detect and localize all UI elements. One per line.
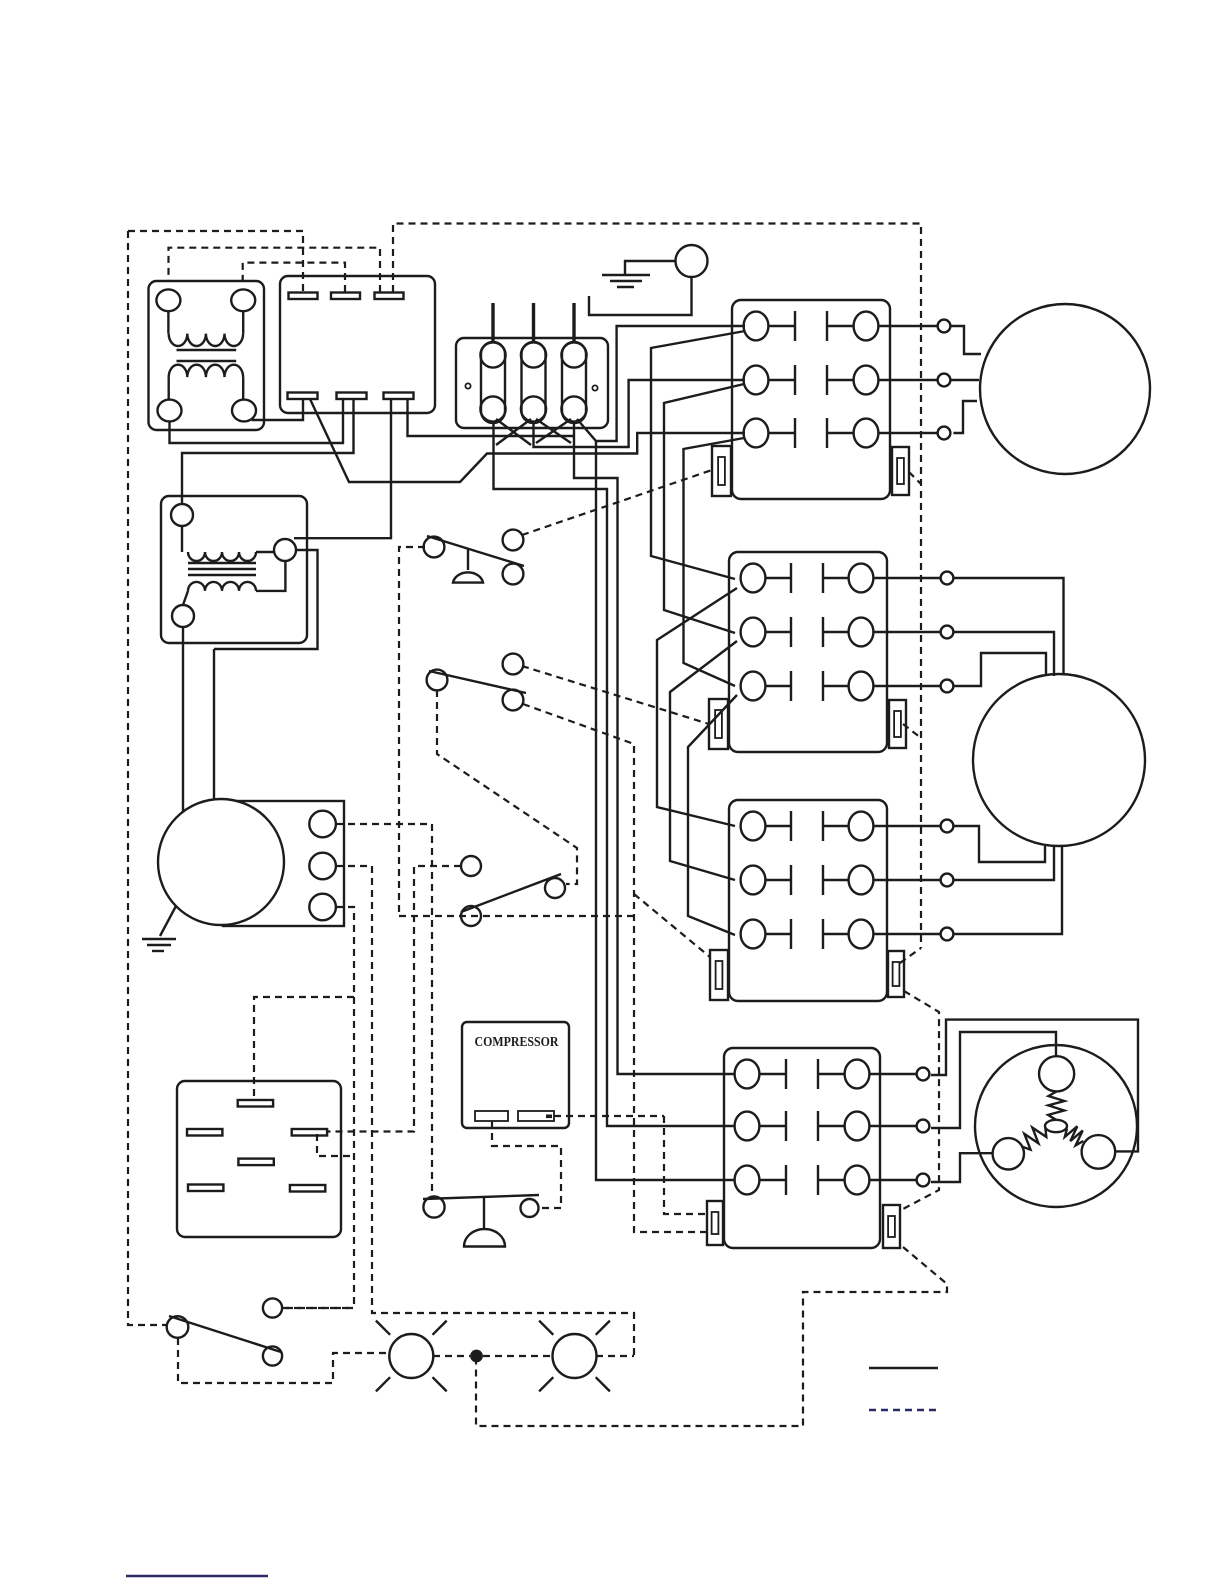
svg-text:COMPRESSOR: COMPRESSOR — [475, 1033, 559, 1049]
